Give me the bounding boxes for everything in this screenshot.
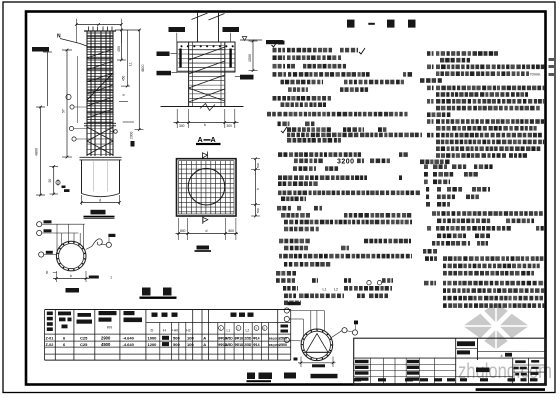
svg-text:70mm.: 70mm. (530, 73, 542, 77)
svg-text:A: A (211, 135, 216, 144)
svg-text:100: 100 (187, 342, 194, 347)
svg-text:5Φ18: 5Φ18 (235, 343, 244, 347)
svg-text:100: 100 (187, 336, 194, 341)
svg-text:500: 500 (173, 342, 180, 347)
svg-text:C25: C25 (80, 336, 88, 341)
svg-text:4800: 4800 (35, 148, 39, 156)
svg-text:zhulong.com: zhulong.com (458, 360, 552, 383)
svg-text:2/5D: 2/5D (244, 337, 252, 341)
svg-text:L2: L2 (246, 329, 250, 333)
svg-text:d: d (99, 198, 101, 202)
svg-text:b: b (204, 123, 206, 127)
svg-text:800: 800 (180, 229, 186, 233)
svg-text:KN: KN (107, 326, 112, 330)
svg-text:1: 1 (110, 276, 112, 280)
svg-text:Φ14: Φ14 (253, 343, 260, 347)
svg-text:C25: C25 (80, 342, 88, 347)
svg-text:500: 500 (173, 336, 180, 341)
svg-text:H2: H2 (186, 329, 190, 333)
svg-text:4/5D: 4/5D (226, 337, 234, 341)
svg-text:A: A (198, 135, 203, 144)
svg-text:Z-02: Z-02 (46, 343, 54, 347)
svg-text:450: 450 (122, 75, 126, 81)
svg-text:4: 4 (501, 354, 503, 358)
svg-text:1200: 1200 (148, 342, 158, 347)
svg-text:L1: L1 (129, 62, 133, 66)
svg-text:Z-01: Z-01 (46, 337, 54, 341)
svg-text:500: 500 (256, 208, 260, 213)
svg-text:2/5D: 2/5D (244, 343, 252, 347)
svg-text:4800: 4800 (141, 64, 145, 72)
svg-text:2900: 2900 (101, 336, 111, 341)
svg-text:2500: 2500 (279, 343, 287, 347)
svg-text:b: b (70, 274, 72, 278)
svg-text:+H0: +H0 (172, 329, 178, 333)
svg-text:a: a (122, 94, 126, 96)
svg-text:H: H (163, 328, 166, 333)
svg-text:2000: 2000 (130, 131, 134, 139)
svg-text:1500: 1500 (248, 54, 252, 62)
svg-text:4500: 4500 (101, 342, 111, 347)
svg-text:A: A (203, 342, 206, 347)
svg-text:3200: 3200 (337, 159, 355, 166)
svg-text:800: 800 (229, 229, 235, 233)
svg-text:500: 500 (256, 163, 260, 168)
svg-text:L1: L1 (323, 287, 327, 291)
svg-text:57: 57 (62, 109, 66, 113)
svg-text:300: 300 (227, 124, 233, 128)
svg-text:-4.640: -4.640 (123, 342, 135, 347)
svg-text:50: 50 (48, 179, 52, 183)
svg-text:Φ14: Φ14 (253, 337, 260, 341)
svg-text:50: 50 (45, 270, 49, 274)
svg-text:D: D (151, 328, 154, 333)
svg-text:8Φ16: 8Φ16 (235, 337, 244, 341)
svg-text:1000: 1000 (148, 336, 158, 341)
svg-text:A: A (203, 336, 206, 341)
svg-text:b: b (256, 188, 260, 190)
svg-text:-4.640: -4.640 (123, 336, 135, 341)
svg-text:L1: L1 (227, 329, 231, 333)
svg-text:L2: L2 (334, 287, 338, 291)
svg-text:4/5D: 4/5D (226, 343, 234, 347)
svg-text:d: d (206, 229, 208, 233)
svg-text:450: 450 (117, 46, 121, 52)
svg-text:300: 300 (179, 124, 185, 128)
